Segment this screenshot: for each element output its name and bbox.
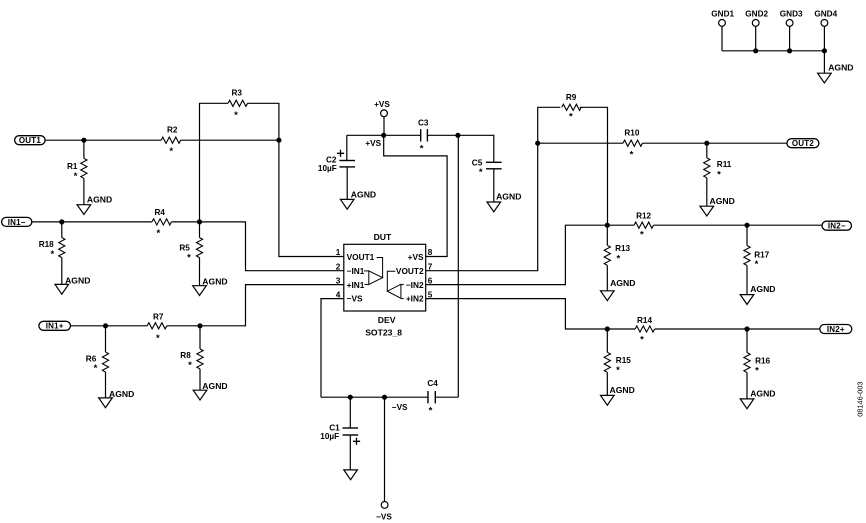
svg-text:GND4: GND4 (814, 10, 837, 19)
connector GND1 (719, 20, 726, 27)
svg-text:+IN2: +IN2 (406, 294, 424, 304)
svg-text:−VS: −VS (347, 294, 363, 304)
connector IN2+ (820, 325, 852, 334)
op-amp A1 input stubs (364, 270, 369, 272)
svg-text:R8: R8 (180, 351, 191, 360)
svg-text:*: * (640, 334, 644, 345)
wire -VS rail (321, 396, 428, 398)
resistor R12 (634, 222, 654, 228)
svg-text:VOUT2: VOUT2 (396, 266, 424, 276)
svg-text:IN2+: IN2+ (827, 325, 845, 334)
capacitor C1 (343, 427, 359, 429)
svg-text:DEV: DEV (378, 315, 396, 325)
svg-text:*: * (420, 143, 424, 154)
junction IN1+/R6 (103, 323, 108, 328)
wire +VS rail left to C2 (347, 134, 384, 136)
svg-text:10µF: 10µF (320, 432, 339, 441)
wire C5 to ground (493, 169, 495, 202)
junction GND2-bus (753, 48, 758, 53)
wire junction to DUT pin 3 (200, 285, 344, 326)
svg-text:*: * (640, 229, 644, 240)
svg-text:2: 2 (336, 262, 341, 271)
svg-text:R9: R9 (566, 93, 577, 102)
wire +VS to DUT pin 8 (384, 135, 447, 256)
wire GND3 stub (789, 26, 791, 51)
svg-text:OUT1: OUT1 (19, 136, 41, 145)
junction IN2+ row/R15 (605, 326, 610, 331)
svg-text:DUT: DUT (374, 232, 392, 242)
svg-text:*: * (94, 363, 98, 374)
ground AGND (R18) (55, 284, 69, 294)
wire R6 to ground (105, 372, 107, 398)
op-amp A2 output wire (387, 271, 395, 291)
ground AGND (GND header) (818, 73, 832, 83)
svg-text:*: * (630, 149, 634, 160)
svg-text:OUT2: OUT2 (792, 139, 814, 148)
wire DUT pin 6 to IN2- row (426, 225, 634, 284)
svg-text:VOUT1: VOUT1 (347, 252, 375, 262)
svg-text:*: * (569, 112, 573, 123)
svg-text:*: * (616, 365, 620, 376)
power terminal +VS (381, 110, 388, 117)
svg-text:R11: R11 (717, 160, 732, 169)
wire R14 to IN2+ (655, 328, 820, 330)
wire R10 to OUT2 (643, 142, 787, 144)
svg-text:*: * (616, 253, 620, 264)
wire GND2 stub (755, 26, 757, 51)
svg-text:R16: R16 (755, 357, 770, 366)
wire DUT pin 4 to -VS rail (321, 299, 344, 398)
resistor R10 (623, 140, 643, 146)
svg-text:−IN1: −IN1 (347, 266, 365, 276)
ground AGND (R5) (193, 286, 207, 296)
resistor R6 (105, 326, 107, 352)
op-amp A2 triangle (387, 284, 401, 298)
connector IN1- (2, 217, 32, 226)
svg-text:−VS: −VS (392, 403, 408, 412)
svg-text:AGND: AGND (610, 278, 635, 288)
svg-text:10µF: 10µF (318, 164, 337, 173)
svg-text:−VS: −VS (376, 513, 392, 522)
svg-text:*: * (755, 366, 759, 377)
svg-text:AGND: AGND (202, 381, 227, 391)
wire +VS rail to C3 (384, 134, 421, 136)
capacitor C2 (339, 160, 355, 162)
svg-text:AGND: AGND (750, 389, 775, 399)
svg-text:AGND: AGND (610, 385, 635, 395)
wire R1 to ground (83, 178, 85, 204)
wire node to C5 corner (458, 135, 494, 162)
wire R17 to ground (746, 266, 748, 295)
svg-text:+VS: +VS (365, 139, 381, 148)
svg-text:*: * (187, 252, 191, 263)
op-amp DUT package outline (344, 244, 426, 311)
junction node B (535, 141, 540, 146)
svg-text:IN1+: IN1+ (46, 322, 64, 331)
wire C1 from rail (349, 397, 351, 428)
svg-text:AGND: AGND (109, 389, 134, 399)
wire R12 to IN2- (654, 224, 823, 226)
wire GND bus (722, 50, 824, 52)
resistor R9 feedback loop (538, 107, 561, 143)
svg-text:AGND: AGND (65, 275, 90, 285)
svg-text:+IN1: +IN1 (347, 280, 365, 290)
wire R11 to ground (706, 178, 708, 206)
resistor R13 (606, 225, 608, 245)
svg-text:*: * (156, 333, 160, 344)
svg-text:GND3: GND3 (780, 10, 803, 19)
connector GND3 (786, 20, 793, 27)
connector OUT1 (15, 136, 45, 145)
svg-text:*: * (234, 110, 238, 121)
svg-text:R1: R1 (67, 162, 78, 171)
resistor R2 (161, 137, 181, 143)
junction IN2- row/R13 (605, 223, 610, 228)
node +VS rail junction (381, 133, 386, 138)
svg-text:*: * (188, 360, 192, 371)
resistor R8 (199, 326, 201, 349)
junction R4/R5/R3 (197, 219, 202, 224)
svg-text:IN2−: IN2− (828, 222, 846, 231)
wire R5 to ground (199, 258, 201, 286)
svg-text:C3: C3 (418, 118, 429, 127)
junction IN2+ row/R16 (744, 326, 749, 331)
op-amp A1 triangle (369, 271, 383, 285)
ground AGND (R1) (77, 205, 91, 215)
wire R7 to junction (167, 325, 200, 327)
junction -VS terminal tap (382, 395, 387, 400)
wire GND4 stub (823, 26, 825, 51)
wire rail to -VS terminal (384, 397, 386, 501)
wire OUT1 to R2 (45, 139, 161, 141)
resistor R5 (199, 222, 201, 238)
svg-text:8: 8 (428, 248, 433, 257)
wire R8 to ground (199, 369, 201, 390)
power terminal -VS (381, 502, 388, 509)
svg-text:3: 3 (336, 276, 341, 285)
ground AGND (R6) (99, 398, 113, 408)
connector GND2 (752, 20, 759, 27)
svg-text:R18: R18 (39, 240, 54, 249)
svg-text:AGND: AGND (351, 189, 376, 199)
ground AGND (R15) (601, 395, 615, 405)
junction C3/C4/C5 node (455, 133, 460, 138)
svg-text:*: * (717, 169, 721, 180)
svg-text:R5: R5 (179, 243, 190, 252)
svg-text:*: * (479, 167, 483, 178)
capacitor C5 (486, 161, 502, 163)
svg-text:7: 7 (428, 262, 433, 271)
resistor R14 (635, 326, 655, 332)
svg-text:R7: R7 (153, 313, 164, 322)
resistor R17 (746, 225, 748, 245)
resistor R11 (706, 143, 708, 158)
capacitor C2 wire from rail (346, 135, 348, 160)
svg-text:1: 1 (336, 248, 341, 257)
junction C1 tap (348, 395, 353, 400)
ground AGND (C2) (340, 199, 354, 209)
svg-text:*: * (156, 228, 160, 239)
svg-text:+VS: +VS (408, 252, 424, 262)
capacitor C4 (427, 391, 429, 403)
wire node B to DUT pin 7 (426, 143, 538, 271)
svg-text:*: * (429, 405, 433, 416)
wire node A to DUT pin 1 (279, 140, 344, 256)
svg-text:R12: R12 (636, 212, 651, 221)
wire junction to DUT pin 2 (200, 222, 344, 271)
ground AGND (R13) (601, 291, 615, 301)
svg-text:R10: R10 (624, 128, 639, 137)
svg-text:AGND: AGND (496, 191, 521, 201)
ground AGND (R8) (193, 390, 207, 400)
wire R4 to junction (171, 221, 199, 223)
svg-text:R4: R4 (155, 208, 166, 217)
connector OUT2 (787, 139, 819, 148)
resistor R7 (147, 323, 167, 329)
connector IN2- (822, 221, 852, 230)
wire R13 to ground (606, 265, 608, 291)
wire IN1+ to R7 (71, 325, 148, 327)
wire node B to R10 (538, 142, 623, 144)
svg-text:AGND: AGND (87, 195, 112, 205)
svg-text:GND1: GND1 (711, 10, 734, 19)
op-amp A2 input stubs (401, 284, 404, 286)
junction IN1-/R18 (59, 219, 64, 224)
svg-text:R14: R14 (637, 316, 652, 325)
resistor R16 (746, 329, 748, 353)
junction OUT2/R11 (704, 141, 709, 146)
wire R18 to ground (61, 258, 63, 285)
wire GND1 stub (721, 26, 723, 51)
wire C2 to ground (346, 167, 348, 200)
svg-text:*: * (755, 259, 759, 270)
svg-text:AGND: AGND (750, 284, 775, 294)
op-amp A1 output wire (377, 258, 383, 278)
wire C4 to riser (435, 396, 458, 398)
wire R16 to ground (746, 373, 748, 399)
capacitor C3 (420, 129, 422, 141)
resistor R15 (606, 329, 608, 352)
wire C3 to node (427, 134, 458, 136)
resistor R18 (61, 222, 63, 238)
svg-text:+VS: +VS (374, 100, 390, 109)
svg-text:AGND: AGND (202, 277, 227, 287)
svg-text:R2: R2 (167, 126, 178, 135)
svg-text:IN1−: IN1− (8, 218, 26, 227)
svg-text:−IN2: −IN2 (406, 280, 424, 290)
svg-text:GND2: GND2 (745, 10, 768, 19)
wire riser C4 to C3 node (457, 135, 459, 397)
resistor R3 feedback loop (200, 103, 229, 222)
resistor R4 (152, 219, 172, 225)
ground AGND (C5) (487, 202, 501, 212)
ground (C1) (344, 470, 358, 480)
svg-text:R3: R3 (232, 89, 243, 98)
svg-text:*: * (74, 171, 78, 182)
wire +VS terminal to rail (383, 117, 385, 136)
ground AGND (R16) (740, 399, 754, 409)
junction node A (276, 138, 281, 143)
svg-text:R15: R15 (616, 356, 631, 365)
ground AGND (R17) (740, 295, 754, 305)
junction GND4-bus (822, 48, 827, 53)
wire bus to AGND (823, 51, 825, 73)
resistor R1 (83, 140, 85, 158)
wire DUT pin 5 to IN2+ row (426, 299, 636, 329)
wire R3 to node A vertical (248, 103, 279, 140)
wire R15 to ground (606, 372, 608, 395)
svg-text:*: * (50, 249, 54, 260)
junction R7/R8 (197, 323, 202, 328)
svg-text:AGND: AGND (828, 62, 853, 72)
ground AGND (R11) (700, 206, 714, 216)
junction OUT1/R1 (81, 138, 86, 143)
wire R9 to vertical (580, 107, 608, 225)
connector GND4 (821, 20, 828, 27)
svg-text:C4: C4 (427, 379, 438, 388)
svg-text:R13: R13 (615, 244, 630, 253)
wire IN1- to R4 (32, 221, 152, 223)
svg-text:SOT23_8: SOT23_8 (365, 328, 402, 338)
wire C1 to ground (349, 435, 351, 470)
svg-text:08146-003: 08146-003 (856, 381, 865, 416)
svg-text:AGND: AGND (710, 196, 735, 206)
junction IN2- row/R17 (744, 223, 749, 228)
junction GND3-bus (787, 48, 792, 53)
svg-text:*: * (169, 146, 173, 157)
connector IN1+ (39, 321, 71, 330)
wire R2 to node A (181, 139, 279, 141)
